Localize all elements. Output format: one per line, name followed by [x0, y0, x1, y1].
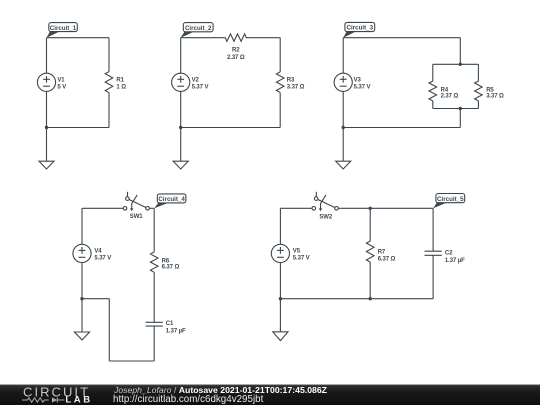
wire c3 left upper — [342, 38, 344, 73]
ground c4 — [74, 332, 89, 340]
svg-text:5.37 V: 5.37 V — [94, 255, 111, 261]
label V2 value — [192, 78, 209, 91]
label R7 value — [378, 249, 396, 262]
wire c5 left lower — [279, 263, 281, 299]
svg-text:http://circuitlab.com/c6dkg4v2: http://circuitlab.com/c6dkg4v295jbt — [113, 394, 264, 405]
wire c4 top left — [82, 207, 124, 209]
voltage source V1 — [37, 73, 55, 91]
node junction c4 — [80, 297, 83, 300]
wire c4 loop up — [108, 299, 110, 361]
wire c4 right lower — [153, 326, 155, 361]
node label Circuit_1 — [47, 23, 78, 38]
wire c3 down from rail — [459, 109, 461, 128]
wire c2 left upper — [180, 38, 182, 73]
label V5 value — [293, 249, 310, 262]
svg-text:C1: C1 — [166, 321, 174, 327]
node junction c5 left — [279, 297, 282, 300]
node label Circuit_5 — [433, 194, 465, 209]
wire c3 ground stem — [342, 128, 344, 162]
wire c2 right lower — [279, 93, 281, 128]
node junction c2 — [179, 126, 182, 129]
wire c3 parallel top rail — [433, 63, 479, 65]
label R5 value — [486, 88, 504, 100]
svg-text:R2: R2 — [232, 47, 240, 53]
svg-text:V2: V2 — [192, 78, 200, 84]
wire C2 top lead — [432, 208, 434, 251]
wire c4 right mid — [153, 272, 155, 322]
wire C2 bottom lead — [432, 255, 434, 298]
wire c1 left lower — [46, 91, 48, 127]
svg-text:5.37 V: 5.37 V — [354, 84, 371, 90]
voltage source V2 — [172, 73, 190, 91]
ground c3 — [336, 161, 351, 169]
wire R4 bottom lead — [432, 101, 434, 109]
svg-text:R1: R1 — [116, 78, 124, 84]
wire c1 left upper — [46, 38, 48, 73]
wire c3 parallel bottom rail — [433, 108, 479, 110]
svg-text:SW1: SW1 — [130, 214, 143, 220]
switch SW2 — [312, 192, 338, 211]
resistor R7 — [366, 241, 374, 262]
svg-text:3.37 Ω: 3.37 Ω — [486, 93, 504, 99]
ground c2 — [173, 161, 188, 169]
svg-text:Circuit_1: Circuit_1 — [50, 25, 77, 32]
svg-text:6.37 Ω: 6.37 Ω — [378, 256, 396, 262]
svg-text:V5: V5 — [293, 249, 301, 255]
wire R5 top lead — [477, 64, 479, 81]
wire c3 bottom — [343, 127, 460, 129]
label R4 value — [441, 88, 459, 100]
node junction c3 top rail — [459, 63, 462, 66]
wire R5 bottom lead — [477, 101, 479, 109]
wire c5 ground stem — [279, 299, 281, 332]
wire c3 right down — [459, 38, 461, 65]
voltage source V3 — [334, 73, 352, 91]
wire c2 top left — [181, 37, 226, 39]
resistor R4 — [429, 81, 437, 101]
label R3 value — [287, 78, 305, 91]
wire R7 top lead — [369, 208, 371, 241]
wire c4 right upper — [153, 208, 155, 252]
wire c4 switch to corner — [149, 207, 154, 209]
svg-text:2.37 Ω: 2.37 Ω — [441, 93, 459, 99]
wire c4 bottom — [109, 360, 154, 362]
wire c2 left lower — [180, 91, 182, 127]
capacitor C2 — [425, 251, 442, 255]
ground c5 — [273, 332, 288, 341]
svg-text:Circuit_4: Circuit_4 — [158, 196, 185, 203]
svg-text:5 V: 5 V — [57, 84, 66, 90]
node label Circuit_3 — [343, 22, 374, 37]
wire c4 ground stem — [81, 299, 83, 332]
resistor R3 — [276, 72, 284, 93]
svg-text:LAB: LAB — [65, 395, 92, 405]
svg-text:R6: R6 — [162, 258, 170, 264]
label V1 value — [57, 78, 66, 91]
node junction c5 top — [369, 207, 372, 210]
node junction c1 — [45, 126, 48, 129]
wire c2 bottom — [181, 127, 281, 129]
resistor R5 — [475, 81, 483, 101]
wire c4 left lower — [81, 263, 83, 299]
svg-text:Circuit_2: Circuit_2 — [185, 25, 212, 32]
svg-text:R7: R7 — [378, 249, 386, 255]
wire c3 left lower — [342, 91, 344, 127]
ground c1 — [39, 161, 54, 169]
svg-text:6.37 Ω: 6.37 Ω — [162, 265, 180, 271]
label R1 value — [116, 78, 126, 91]
wire c1 top — [47, 37, 110, 39]
resistor R1 — [105, 72, 113, 93]
label V4 value — [94, 249, 111, 262]
footer background — [0, 385, 540, 405]
wire c1 bottom — [47, 127, 110, 129]
voltage source V5 — [271, 244, 289, 262]
svg-text:1.37 µF: 1.37 µF — [445, 258, 465, 264]
svg-text:Circuit_5: Circuit_5 — [437, 196, 464, 203]
node junction c3 bottom rail — [459, 107, 462, 110]
capacitor C1 — [146, 322, 163, 326]
wire c5 left upper — [279, 208, 281, 244]
svg-text:1 Ω: 1 Ω — [116, 85, 126, 91]
wire R7 bottom lead — [369, 262, 371, 299]
voltage source V4 — [73, 244, 91, 262]
wire c4 left upper — [81, 208, 83, 244]
wire c5 bottom — [280, 298, 433, 300]
node junction c3 — [342, 126, 345, 129]
svg-text:3.37 Ω: 3.37 Ω — [287, 85, 305, 91]
wire c1 right lower — [108, 93, 110, 128]
node label Circuit_2 — [181, 23, 213, 38]
resistor R6 — [150, 252, 158, 272]
svg-text:5.37 V: 5.37 V — [293, 255, 310, 261]
svg-text:V3: V3 — [354, 78, 362, 84]
label C2 value — [445, 251, 465, 264]
logo resistor squiggle and diode — [22, 397, 65, 402]
wire c5 top right — [338, 207, 433, 209]
label V3 value — [354, 78, 371, 91]
wire c2 top right — [246, 37, 280, 39]
wire c5 top left — [280, 207, 312, 209]
label R2 value — [227, 47, 245, 61]
svg-text:SW2: SW2 — [319, 214, 332, 220]
switch SW1 — [123, 192, 149, 211]
wire c1 right upper — [108, 38, 110, 72]
svg-text:C2: C2 — [445, 251, 453, 257]
label C1 value — [166, 321, 186, 334]
wire c1 ground stem — [46, 128, 48, 162]
node junction c5 bottom R7 — [369, 297, 372, 300]
wire R4 top lead — [432, 64, 434, 81]
svg-text:R3: R3 — [287, 78, 295, 84]
node label Circuit_4 — [154, 194, 186, 208]
label R6 value — [162, 258, 180, 270]
svg-text:Circuit_3: Circuit_3 — [347, 25, 374, 32]
svg-text:1.37 µF: 1.37 µF — [166, 328, 186, 334]
svg-text:V1: V1 — [57, 78, 65, 84]
wire c4 loop left — [82, 298, 109, 300]
wire c2 right upper — [279, 38, 281, 72]
wire c3 top — [343, 37, 460, 39]
svg-text:2.37 Ω: 2.37 Ω — [227, 55, 245, 61]
wire c2 ground stem — [180, 128, 182, 162]
svg-text:V4: V4 — [94, 249, 102, 255]
resistor R2 — [225, 34, 246, 41]
svg-text:5.37 V: 5.37 V — [192, 84, 209, 90]
